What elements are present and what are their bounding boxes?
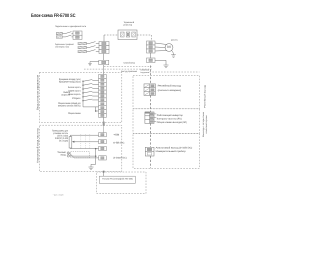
svg-text:Аналоговый выход (0-10В DC): Аналоговый выход (0-10В DC) xyxy=(156,147,193,150)
fuse F1 single-phase xyxy=(56,32,62,35)
control terminal row 11 xyxy=(99,114,107,118)
switch input 2 xyxy=(83,83,92,85)
control terminal row 6 xyxy=(99,94,107,98)
shielded cable dashed box xyxy=(71,152,90,158)
dashed box analog inputs xyxy=(40,125,122,172)
terminal V xyxy=(147,45,156,49)
input common bus xyxy=(82,80,84,106)
switch S2 xyxy=(66,35,72,37)
control terminal row 2 xyxy=(99,78,107,82)
junction terminal 5 wire xyxy=(95,148,97,150)
fuse F3 three-phase xyxy=(78,42,87,45)
switch S1 xyxy=(66,32,72,34)
dashed wire PR xyxy=(137,34,152,36)
svg-text:Подключение к трехфазной: Подключение к трехфазной xyxy=(55,43,74,46)
svg-text:М: М xyxy=(167,45,170,49)
feed-through terminal on border xyxy=(103,122,105,126)
wire xyxy=(92,95,98,97)
fuse F4 three-phase xyxy=(78,46,87,49)
wire motor to earth xyxy=(172,50,174,53)
svg-text:Высокая скорость: Высокая скорость xyxy=(68,86,81,89)
svg-text:Релейный выход: Релейный выход xyxy=(158,85,182,88)
svg-text:Подключение к однофазной сети: Подключение к однофазной сети xyxy=(55,25,86,28)
label STR xyxy=(59,81,81,84)
terminal 10 xyxy=(99,133,107,137)
label +5V xyxy=(113,133,119,136)
junction row 4 xyxy=(82,92,83,93)
shield cable dashes xyxy=(80,134,82,149)
wire xyxy=(62,33,65,35)
junction row 5 xyxy=(82,96,83,97)
control terminal row 10 xyxy=(99,110,107,114)
wire to terminal 5 xyxy=(70,148,98,150)
switch S3 xyxy=(89,42,96,44)
label control circuit xyxy=(121,70,137,73)
dashed border top right section xyxy=(150,71,200,73)
terminal T/L3 xyxy=(99,50,109,54)
svg-text:DC опция): DC опция) xyxy=(59,139,68,142)
svg-text:* Доп. опция: * Доп. опция xyxy=(53,194,64,197)
wire xyxy=(87,47,90,49)
potentiometer wiper arrow xyxy=(72,141,75,143)
control terminal row 1 xyxy=(99,75,107,79)
wire to DC bus xyxy=(103,35,105,42)
label common SD line2 xyxy=(58,104,81,107)
wire SD common xyxy=(83,106,99,108)
svg-text:Потенциометр для: Потенциометр для xyxy=(52,130,68,133)
earth analog common xyxy=(88,165,93,169)
svg-text:внешнего питания 24В DC): внешнего питания 24В DC) xyxy=(58,104,81,107)
label potentiometer xyxy=(52,130,68,133)
svg-text:сети перем. тока: сети перем. тока xyxy=(55,46,69,49)
wire xyxy=(89,61,91,64)
svg-text:Вход сигналов управления: Вход сигналов управления xyxy=(37,75,40,110)
motor M xyxy=(165,44,173,52)
junction row 3 xyxy=(82,88,83,89)
label analog output line1 xyxy=(156,147,193,150)
wire xyxy=(72,36,74,38)
dashed wire down xyxy=(151,35,153,41)
label PC xyxy=(68,112,81,115)
junction xyxy=(95,155,97,157)
label RES xyxy=(72,97,81,100)
switch input 5 xyxy=(83,95,92,97)
label power circuit xyxy=(123,62,135,65)
svg-text:Выход с открытым: Выход с открытым xyxy=(202,112,205,137)
fuse F5 three-phase xyxy=(78,50,87,53)
wire xyxy=(92,91,98,93)
control terminal row 7 xyxy=(99,98,107,102)
wire xyxy=(96,51,99,53)
wire xyxy=(96,47,99,49)
vertical label analog input xyxy=(37,128,40,163)
svg-text:(1/2 Вт, 1кОм): (1/2 Вт, 1кОм) xyxy=(57,134,68,137)
resistor element 2 xyxy=(132,32,136,37)
earth motor xyxy=(171,53,176,57)
wire V to motor xyxy=(155,46,165,49)
wire xyxy=(69,147,71,150)
label control circuit 2 xyxy=(141,71,150,73)
switch input 3 xyxy=(83,87,92,89)
svg-text:Контроль частоты (FU): Контроль частоты (FU) xyxy=(157,118,182,121)
svg-text:Токовый: Токовый xyxy=(57,151,65,154)
vertical label open collector line1 xyxy=(202,112,205,137)
svg-text:Контур управления: Контур управления xyxy=(141,71,150,73)
label STF xyxy=(59,78,81,81)
wire current + to terminal 4 xyxy=(70,153,99,158)
dashed divider power side xyxy=(104,65,152,67)
svg-text:(4-20мА DC): (4-20мА DC) xyxy=(113,156,126,159)
dashed box analog output xyxy=(133,133,200,168)
stub wire xyxy=(154,121,156,123)
dashed box relay output xyxy=(133,76,200,109)
terminal 4 xyxy=(99,156,107,160)
ground terminal input side xyxy=(99,60,109,64)
label single-phase supply xyxy=(55,25,86,28)
feed-through terminal analog border xyxy=(103,171,105,173)
fuse F2 single-phase xyxy=(56,36,62,39)
terminal U xyxy=(147,41,156,45)
terminal R/L1 xyxy=(99,42,109,46)
vertical label open collector line2 xyxy=(205,115,208,133)
svg-text:Работающий инвертор: Работающий инвертор xyxy=(157,114,183,117)
ground terminal output side xyxy=(147,58,156,63)
wire xyxy=(87,43,90,45)
wire xyxy=(72,33,74,35)
svg-text:Двигатель: Двигатель xyxy=(171,39,178,41)
svg-text:Вращение назад (пуск): Вращение назад (пуск) xyxy=(59,81,81,84)
stub wire xyxy=(154,113,156,115)
svg-text:установки частоты: установки частоты xyxy=(53,132,68,135)
terminal W xyxy=(147,49,156,53)
earth input xyxy=(88,62,92,65)
dashed divider control side xyxy=(84,68,152,70)
wire xyxy=(90,164,92,165)
control terminal row 9 xyxy=(99,106,107,110)
analog output terminal group xyxy=(145,147,154,156)
control terminal row 8 xyxy=(99,102,107,106)
open collector terminal group xyxy=(145,112,154,123)
svg-text:Аналоговый вход частоты: Аналоговый вход частоты xyxy=(37,128,40,163)
vertical label relay output xyxy=(204,85,207,108)
wire xyxy=(150,53,152,58)
wire xyxy=(91,163,96,165)
junction row 2 xyxy=(82,85,83,86)
brake resistor option box xyxy=(118,30,137,40)
svg-text:коллектором: коллектором xyxy=(205,115,208,133)
wire xyxy=(92,83,98,85)
label RM xyxy=(68,90,81,93)
terminal S/L2 xyxy=(99,46,109,50)
label current input line2 xyxy=(61,153,66,156)
wire to control terminal strip xyxy=(103,65,105,75)
svg-text:Контур управления: Контур управления xyxy=(121,70,137,73)
terminal 5 xyxy=(99,146,107,150)
wire W to motor xyxy=(155,50,167,53)
svg-text:Измерительный прибор: Измерительный прибор xyxy=(156,150,186,153)
vertical label control input signals xyxy=(37,75,40,110)
label speed select line2 xyxy=(61,94,70,97)
wire xyxy=(103,126,105,132)
label RH xyxy=(68,86,81,89)
svg-text:Общая клемма (общий для: Общая клемма (общий для xyxy=(58,102,81,105)
junction row 6 xyxy=(82,100,83,101)
svg-text:Блок-схема FR-E700 SC: Блок-схема FR-E700 SC xyxy=(31,13,76,19)
wire to PU connector xyxy=(103,171,105,176)
label RL xyxy=(68,93,81,96)
terminal S/L2 (1-phase) xyxy=(73,35,82,39)
switch S4 xyxy=(89,46,96,48)
svg-text:Выбор: Выбор xyxy=(64,91,71,94)
resistor element xyxy=(121,32,125,37)
dashed wire P1 xyxy=(104,34,118,36)
wire xyxy=(69,135,71,136)
label FU xyxy=(157,118,182,121)
wire xyxy=(92,79,98,81)
svg-text:Тормозной: Тормозной xyxy=(124,21,135,24)
label common SD line1 xyxy=(58,102,81,105)
junction row 1 xyxy=(82,81,83,82)
wire strip to analog box xyxy=(103,117,105,126)
wire xyxy=(92,87,98,89)
dashed box control inputs xyxy=(40,72,122,122)
wire current - to common xyxy=(70,155,96,157)
control terminal row 4 xyxy=(99,86,107,90)
current input + terminal xyxy=(67,152,69,154)
switch input 6 xyxy=(83,99,92,101)
svg-text:Сброс: Сброс xyxy=(72,97,81,100)
potentiometer R1 xyxy=(69,137,72,148)
control terminal row 5 xyxy=(99,90,107,94)
open collector terminals RUN FU SE xyxy=(145,112,150,114)
wire xyxy=(96,110,99,112)
wire xyxy=(103,54,105,61)
label motor xyxy=(171,39,178,41)
switch S5 xyxy=(89,50,96,52)
svg-text:0-5В DC (0-10В: 0-5В DC (0-10В xyxy=(55,137,68,140)
footnote xyxy=(53,194,64,197)
dashed box open collector output xyxy=(133,109,200,134)
svg-text:Релейный выход: Релейный выход xyxy=(204,85,207,108)
svg-text:0-5В DC: 0-5В DC xyxy=(113,141,124,144)
wire xyxy=(165,60,167,63)
wire xyxy=(92,99,98,101)
label analog output line2 xyxy=(156,150,186,153)
terminal R/L1 (1-phase) xyxy=(73,31,82,35)
stub wire xyxy=(154,117,156,119)
label brake resistor option xyxy=(124,21,135,24)
svg-text:Разъем PU (интерфейс RS-485): Разъем PU (интерфейс RS-485) xyxy=(102,178,132,181)
current input - terminal xyxy=(67,155,69,157)
terminal in option box xyxy=(126,32,130,37)
switch input 1 xyxy=(83,80,92,82)
label three-phase supply xyxy=(55,43,74,46)
label RUN xyxy=(157,114,183,117)
label relay output line2 xyxy=(158,89,181,92)
label power circuit 2 xyxy=(141,69,150,71)
relay terminal group xyxy=(144,84,155,96)
svg-text:+5В: +5В xyxy=(113,133,119,136)
wire to analog earth xyxy=(95,149,97,165)
label speed select line1 xyxy=(64,91,71,94)
wire xyxy=(90,61,99,63)
svg-text:Общая клемма: Общая клемма xyxy=(68,112,81,115)
wire U to motor xyxy=(155,43,167,45)
title xyxy=(31,13,76,19)
wire xyxy=(95,107,97,111)
svg-text:(сигнал аварии): (сигнал аварии) xyxy=(158,89,181,92)
label PU connector xyxy=(102,178,132,181)
label current input line1 xyxy=(57,151,65,154)
wire xyxy=(87,51,90,53)
svg-text:вход: вход xyxy=(61,153,66,156)
dashed box PU connector section xyxy=(97,172,147,194)
inverter boundary dashed line xyxy=(150,66,152,84)
label 4-20mA DC xyxy=(113,156,126,159)
terminal 2 xyxy=(99,140,107,144)
label relay output line1 xyxy=(158,85,182,88)
earth output xyxy=(163,63,168,67)
svg-text:Общая клемма выходов (SE): Общая клемма выходов (SE) xyxy=(157,121,187,124)
wire xyxy=(155,59,166,61)
wire xyxy=(96,43,99,45)
junction xyxy=(95,110,97,112)
svg-text:Силовой контур: Силовой контур xyxy=(123,62,135,65)
switch input 4 xyxy=(83,91,92,93)
label SE xyxy=(157,121,187,124)
wire to terminal 10 xyxy=(70,134,98,136)
svg-text:резистор: резистор xyxy=(124,24,133,27)
wire xyxy=(62,36,65,38)
label 0-5V DC xyxy=(113,141,124,144)
svg-text:Силовой контур: Силовой контур xyxy=(141,69,150,71)
PU connector box xyxy=(99,176,135,183)
wire wiper to terminal 2 xyxy=(74,141,98,143)
svg-text:скорости: скорости xyxy=(61,94,70,97)
control terminal row 3 xyxy=(99,82,107,86)
svg-text:Вращение вперед (пуск): Вращение вперед (пуск) xyxy=(59,78,81,81)
